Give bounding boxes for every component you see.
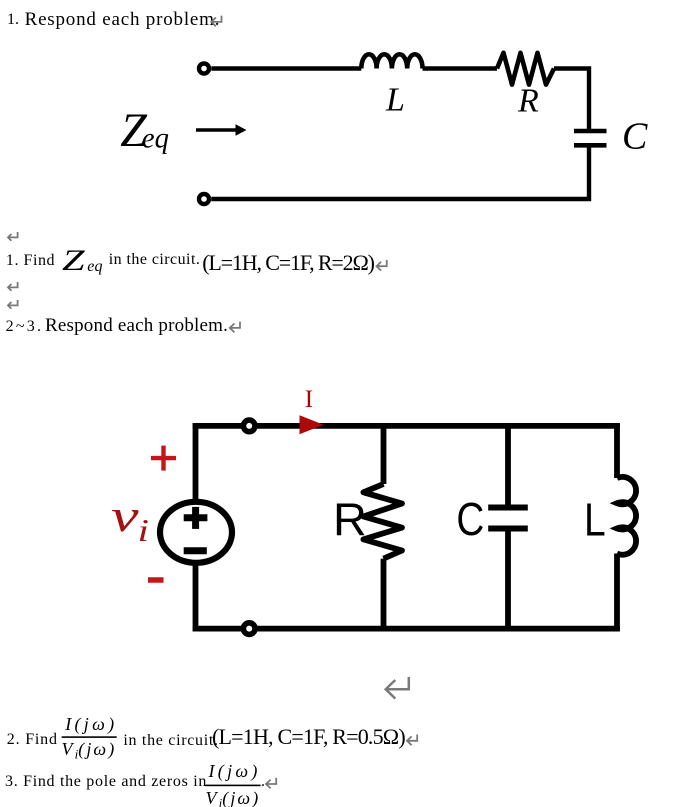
return mark after problem 2 [407, 735, 417, 746]
bottom terminal [199, 194, 209, 204]
capacitor C top plate [574, 129, 607, 134]
text line 1 [7, 12, 19, 28]
left wire above source [193, 423, 199, 500]
node bottom [243, 623, 255, 635]
inductor L loops [617, 477, 636, 555]
return mark after problem 3 [266, 778, 276, 789]
wire R to corner, right side down [554, 69, 589, 132]
return mark after problem 1 [377, 260, 387, 271]
return mark empty line a [8, 232, 18, 241]
resistor R zigzag [363, 484, 402, 559]
inductor L [361, 54, 422, 68]
text problem 2 [7, 732, 58, 748]
fraction bar problem 3 [205, 785, 261, 787]
voltage source Vi [160, 502, 232, 563]
red plus label [151, 446, 176, 471]
left wire below source [193, 565, 199, 631]
node top [243, 420, 255, 432]
L branch wire bottom [614, 554, 620, 632]
capacitor plate top [488, 505, 528, 511]
wire C to bottom corner and bottom rail [211, 145, 589, 199]
return mark line 1 [211, 16, 221, 27]
svg-text:v: v [111, 490, 139, 541]
L branch wire top [614, 423, 620, 478]
label Zeq [120, 104, 169, 157]
wire top left [211, 66, 361, 70]
fraction bar problem 2 [62, 736, 117, 738]
wire between L and R [423, 66, 498, 70]
return mark line 2~3 [230, 322, 240, 333]
R branch wire top [381, 423, 387, 484]
text problem 3 [5, 774, 207, 790]
current arrow I [300, 415, 324, 434]
label vi [111, 490, 149, 548]
text problem 1 [6, 253, 55, 269]
svg-text:i: i [138, 512, 150, 548]
minus sign inside source [184, 547, 207, 554]
text line 2~3 heading [6, 319, 44, 335]
R branch wire bottom [381, 559, 387, 631]
bottom rail wire [193, 626, 620, 632]
C branch wire bottom [505, 531, 511, 631]
return mark empty line c [8, 300, 18, 309]
svg-text:C: C [456, 493, 484, 545]
resistor R [497, 53, 554, 85]
svg-text:I: I [305, 386, 313, 413]
svg-text:L: L [584, 494, 606, 546]
C branch wire top [505, 423, 511, 505]
top rail wire [193, 423, 620, 429]
red minus label [148, 577, 164, 583]
top terminal [199, 64, 209, 74]
return mark below circuit 2 [386, 677, 409, 699]
capacitor plate bottom [488, 526, 528, 532]
Zeq arrow [196, 124, 247, 135]
return mark empty line b [8, 282, 18, 291]
svg-text:R: R [333, 493, 367, 545]
capacitor C bottom plate [574, 143, 607, 148]
plus sign inside source [184, 507, 208, 529]
